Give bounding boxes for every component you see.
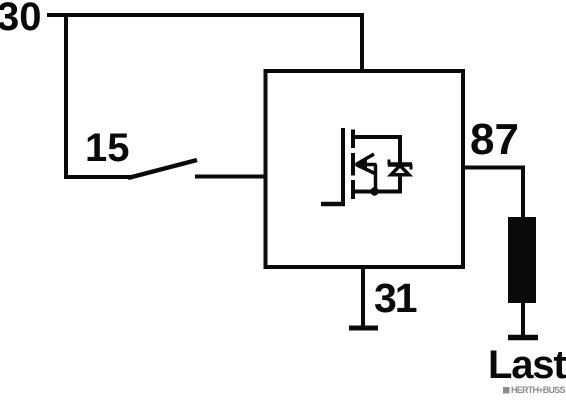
wire 87 vertical to load xyxy=(521,166,525,220)
diode D1 zener cathode bar xyxy=(388,160,412,170)
transistor Q1 channel source segment xyxy=(351,180,355,199)
junction dot source xyxy=(370,187,378,195)
wire 31 vertical xyxy=(361,267,365,328)
transistor Q1 gate lead xyxy=(321,202,345,207)
wire switch left xyxy=(64,175,131,179)
load resistor (Last) xyxy=(508,217,536,303)
transistor Q1 gate bar xyxy=(341,128,345,204)
transistor Q1 channel body segment xyxy=(351,153,355,176)
svg-text:87: 87 xyxy=(470,115,519,164)
wire from 30 horizontal top xyxy=(47,13,364,17)
ground bar 31 xyxy=(349,326,378,331)
svg-text:HERTH+BUSS: HERTH+BUSS xyxy=(511,385,566,395)
wire vertical from 30 down to switch xyxy=(64,13,68,179)
ground bar under load xyxy=(508,335,538,341)
svg-text:15: 15 xyxy=(85,126,130,170)
transistor Q1 body arrow xyxy=(355,154,377,192)
wire 87 horizontal xyxy=(461,166,523,170)
svg-text:30: 30 xyxy=(0,0,42,39)
transistor Q1 drain lead xyxy=(351,135,402,139)
diode D1 lower lead xyxy=(398,175,402,194)
wire load to ground xyxy=(521,303,525,337)
wire vertical down to relay box top xyxy=(360,13,364,71)
switch blade S1 xyxy=(128,160,197,178)
diode D1 upper lead xyxy=(398,135,402,163)
watermark logo herth+buss xyxy=(503,387,510,394)
relay box K1 xyxy=(266,71,464,267)
wire switch right to box xyxy=(195,175,267,179)
transistor Q1 channel drain segment xyxy=(351,130,355,149)
transistor Q1 source lead xyxy=(351,190,402,194)
diode D1 triangle xyxy=(391,166,409,175)
svg-text:Last: Last xyxy=(488,343,566,387)
svg-text:31: 31 xyxy=(374,275,417,321)
